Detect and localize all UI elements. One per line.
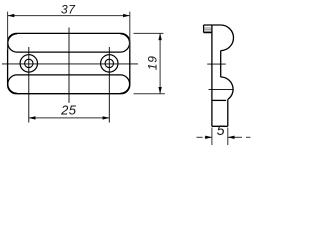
side view bump2 centerline <box>209 89 233 91</box>
dimension 5 arrow left <box>205 136 212 139</box>
bottom rib line with rounded ends <box>8 75 130 93</box>
side view lip left edge <box>203 25 205 33</box>
dimension 5 extension right <box>227 128 229 146</box>
dimension 37 extension right <box>129 12 131 50</box>
side view lip hatch <box>204 28 211 31</box>
side view lip bottom edge <box>204 32 212 34</box>
dimension 25 arrow left <box>29 116 36 119</box>
side view front face between bumps <box>220 51 222 77</box>
dimension 19 arrow bottom <box>158 87 161 94</box>
side view top edge <box>204 24 221 26</box>
hole left outer circle <box>20 55 37 72</box>
dimension 19 extension top <box>134 32 164 34</box>
hole right outer circle <box>101 55 118 72</box>
dimension 5 line right tail <box>228 136 242 138</box>
svg-text:5: 5 <box>217 122 225 138</box>
side view centerline <box>207 63 226 65</box>
side view block top edge <box>212 99 226 101</box>
dimension 37 line <box>8 15 130 17</box>
dimension 5 extension left <box>211 128 213 146</box>
side view bottom edge <box>212 125 228 127</box>
svg-text:19: 19 <box>146 55 160 70</box>
right hole vertical centerline <box>108 47 110 123</box>
front view outer outline <box>8 33 130 93</box>
side view bump1 arc <box>221 25 234 51</box>
dimension 19 arrow top <box>158 33 161 40</box>
hole right inner circle <box>105 59 113 67</box>
side view bump2 arc <box>221 77 233 99</box>
dimension 5 line left tail <box>197 136 203 138</box>
dimension 25 line <box>29 117 110 119</box>
dimension 37 extension left <box>7 12 9 50</box>
hole left inner circle <box>25 59 33 67</box>
dimension 37 arrow left <box>8 14 15 17</box>
dimension 5 arrow right <box>228 136 235 139</box>
side view back face <box>211 25 213 126</box>
dimension 19 extension bottom <box>134 93 165 95</box>
horizontal centerline <box>2 63 138 65</box>
svg-text:25: 25 <box>60 102 77 117</box>
dimension 19 line <box>159 33 161 93</box>
middle vertical centerline <box>68 28 70 103</box>
side view block right edge <box>227 99 229 126</box>
top rib line with rounded ends <box>8 34 130 52</box>
dimension 37 arrow right <box>123 14 130 17</box>
left hole vertical centerline <box>28 47 30 123</box>
dimension 25 arrow right <box>103 116 110 119</box>
svg-text:37: 37 <box>61 3 76 17</box>
